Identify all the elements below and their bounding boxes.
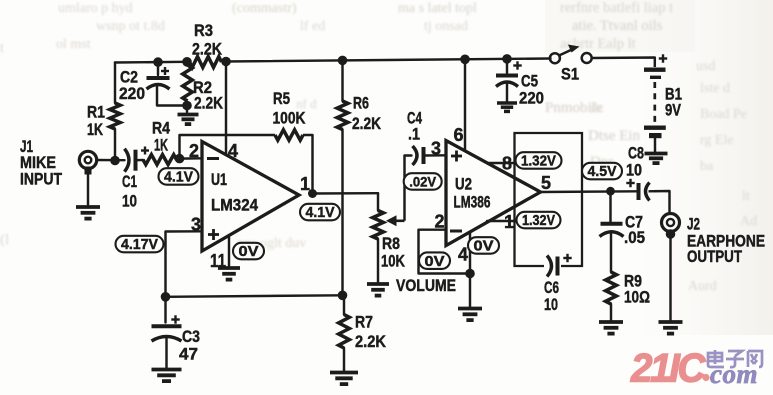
node voltage 4.17V at pin3 [116, 236, 164, 253]
svg-text:6: 6 [454, 125, 464, 145]
svg-text:(l: (l [0, 232, 9, 248]
pin label 2 of U2 [435, 212, 445, 232]
svg-text:4: 4 [458, 245, 468, 265]
capacitor C4 [405, 110, 447, 166]
svg-text:4.1V: 4.1V [306, 205, 335, 221]
svg-text:2.2K: 2.2K [192, 41, 222, 59]
wire C8 to J2 [649, 191, 670, 213]
svg-text:Ad: Ad [740, 214, 757, 229]
svg-text:R3: R3 [194, 22, 213, 40]
pin label 3 of U2 [431, 139, 441, 159]
node voltage 1.32V at pin8 [516, 152, 562, 170]
svg-text:lste d: lste d [700, 81, 730, 96]
svg-text:.02V: .02V [409, 175, 436, 190]
svg-text:4: 4 [228, 141, 238, 161]
pin label 1 of U2 [504, 212, 514, 232]
svg-text:(commastr): (commastr) [232, 1, 297, 16]
svg-text:C5: C5 [521, 73, 538, 91]
ground below pin4 U2 [458, 309, 482, 321]
svg-text:.05: .05 [624, 229, 645, 247]
ground below R7 [330, 373, 358, 385]
node voltage 4.1V at pin2 [159, 168, 199, 186]
capacitor C7 [600, 191, 646, 272]
resistor R2 [183, 65, 223, 113]
ground below C5 [497, 103, 517, 111]
svg-text:.1: .1 [408, 126, 420, 144]
svg-text:Dtse Ein: Dtse Ein [588, 128, 641, 144]
svg-text:umlaro p hyd: umlaro p hyd [58, 1, 133, 16]
svg-text:U1: U1 [211, 171, 227, 189]
node junction R6/R7 [338, 291, 348, 301]
resistor R1 [87, 63, 120, 161]
op-amp U2 [446, 141, 541, 246]
node voltage 4.1V at U1 output [300, 204, 340, 221]
node junction R1 bottom input [110, 156, 120, 166]
wire pin6 to rail [464, 59, 466, 150]
svg-text:0V: 0V [239, 244, 259, 260]
svg-text:1K: 1K [154, 137, 168, 155]
ground below R8 [367, 284, 389, 296]
wire pin3 [166, 231, 203, 297]
wire gain box pins 1-8 [515, 133, 583, 266]
svg-text:0V: 0V [474, 239, 494, 255]
node junction pin2 [175, 154, 185, 164]
svg-text:10: 10 [626, 162, 642, 180]
ground below R2 [178, 106, 199, 125]
capacitor C3 [152, 297, 201, 368]
switch S1 [550, 45, 592, 84]
capacitor C8 [626, 145, 650, 201]
node junction R6 top [338, 56, 348, 66]
svg-text:ma s latel topl: ma s latel topl [398, 1, 477, 16]
wire pin1 stub [487, 220, 516, 222]
pin label 3 [191, 215, 201, 235]
svg-text:9V: 9V [665, 102, 681, 120]
capacitor C6 [544, 254, 572, 314]
svg-text:Boad Pe: Boad Pe [700, 107, 747, 122]
capacitor C5 [496, 59, 544, 108]
svg-text:INPUT: INPUT [20, 171, 62, 189]
node junction C2 tap [153, 57, 163, 67]
svg-text:VOLUME: VOLUME [396, 277, 456, 295]
node voltage 0V at pin11 [233, 243, 264, 260]
svg-text:R6: R6 [353, 95, 369, 113]
pin label 5 [541, 173, 551, 193]
svg-text:2.2K: 2.2K [352, 115, 381, 133]
wire bottom bias rail [166, 295, 343, 297]
watermark 21IC logo [630, 347, 706, 391]
pin label 6 [454, 125, 464, 145]
svg-text:C6: C6 [544, 279, 559, 297]
node voltage .02V at pin3 U2 [404, 173, 442, 190]
node junction pin6 rail [460, 55, 470, 65]
svg-text:47: 47 [179, 346, 198, 364]
svg-text:2: 2 [189, 141, 199, 161]
resistor R3 [190, 22, 223, 67]
wiper arrow R8 [386, 156, 405, 227]
node junction C3 top [161, 292, 171, 302]
ground below pin11 [218, 268, 240, 280]
svg-text:4.17V: 4.17V [121, 237, 158, 253]
svg-text:0V: 0V [425, 254, 445, 270]
pin label 11 [210, 251, 226, 271]
battery B1 [644, 54, 682, 153]
svg-text:10Ω: 10Ω [624, 289, 650, 307]
svg-text:LM324: LM324 [211, 197, 259, 215]
ground below C3 [152, 370, 182, 382]
svg-text:5: 5 [541, 173, 551, 193]
ground below J2 [659, 322, 683, 334]
svg-text:1.32V: 1.32V [521, 154, 556, 170]
node junction pin4 rail [221, 57, 231, 67]
wire feedback loop [180, 135, 313, 194]
svg-text:lf ed: lf ed [300, 19, 325, 34]
svg-text:C2: C2 [120, 69, 138, 87]
svg-text:ol mst: ol mst [56, 37, 91, 52]
wire S1 to battery [591, 58, 655, 68]
svg-text:R4: R4 [152, 120, 171, 138]
capacitor C1 [122, 147, 149, 211]
node junction C5 tap [502, 54, 512, 64]
connector J2 earphone output [662, 214, 766, 267]
watermark chinese glyphs [708, 350, 762, 367]
svg-text:220: 220 [519, 90, 544, 108]
svg-text:U2: U2 [455, 176, 472, 194]
wire J2 to ground [669, 238, 671, 321]
svg-text:4.1V: 4.1V [164, 170, 193, 186]
svg-text:220: 220 [119, 85, 145, 103]
resistor R7 [339, 295, 386, 371]
svg-text:R8: R8 [382, 235, 400, 253]
pin label 2 [189, 141, 199, 161]
capacitor C2 [119, 62, 187, 105]
wire top supply rail left segment (4.5V node) [115, 61, 186, 64]
wire J1 to ground [87, 171, 89, 205]
wire J1 to C1 [97, 159, 125, 162]
potentiometer R8 [373, 193, 456, 295]
svg-text:R7: R7 [355, 314, 373, 332]
svg-text:1: 1 [300, 174, 310, 194]
svg-text:21IC: 21IC [630, 347, 706, 391]
svg-text:100K: 100K [273, 110, 306, 128]
pin label 1 [300, 174, 310, 194]
watermark com script [710, 359, 758, 389]
svg-text:4.5V: 4.5V [588, 164, 617, 180]
svg-text:C1: C1 [122, 173, 137, 191]
svg-text:R1: R1 [87, 104, 105, 122]
node voltage 0V at pin4 U2 [468, 237, 499, 255]
svg-text:10K: 10K [381, 253, 405, 271]
svg-text:10: 10 [122, 193, 137, 211]
node voltage 1.32V at pin1 [517, 212, 561, 229]
wire pin8 stub [489, 162, 516, 164]
ground below battery [645, 154, 668, 164]
wire pin4 U2 to ground [469, 232, 471, 307]
svg-text:rg Ele: rg Ele [700, 133, 734, 148]
svg-text:3: 3 [431, 139, 441, 159]
wire pin4 to rail [225, 62, 227, 155]
node junction R2 bottom [182, 101, 192, 111]
svg-text:10: 10 [544, 296, 558, 314]
op-amp U1 [202, 142, 299, 252]
resistor R6 [337, 60, 381, 295]
svg-text:J2: J2 [687, 216, 700, 234]
ground below R9 [599, 322, 623, 334]
svg-text:1.32V: 1.32V [522, 213, 555, 229]
node voltage 0V on pin2 loop [419, 252, 450, 269]
svg-text:LM386: LM386 [454, 194, 491, 212]
connector J1 mike input [20, 138, 97, 189]
wire top supply rail middle segment (9V) [224, 59, 551, 62]
pin label 4 of U2 [458, 245, 468, 265]
svg-text:wsnp ot t.8d: wsnp ot t.8d [96, 19, 165, 34]
wire U1 output to R8 [313, 192, 379, 195]
svg-text:ba: ba [700, 159, 714, 174]
svg-text:ilc: ilc [590, 101, 604, 116]
svg-text:1K: 1K [87, 121, 103, 139]
svg-text:rerfnre batlefi liap t: rerfnre batlefi liap t [560, 0, 673, 16]
resistor R5 [273, 90, 306, 140]
svg-text:R5: R5 [273, 90, 290, 108]
resistor R4 [143, 120, 180, 165]
watermark dot [702, 374, 709, 381]
ground below J1 [76, 207, 100, 219]
pin label 4 [228, 141, 238, 161]
wire pin11 to ground [228, 235, 230, 266]
svg-text:tj onsad: tj onsad [424, 19, 468, 34]
wire U2 output [541, 190, 637, 193]
svg-text:C3: C3 [182, 328, 200, 346]
svg-text:t: t [0, 41, 4, 56]
svg-text:atie. Ttvanl oils: atie. Ttvanl oils [572, 18, 663, 34]
svg-text:Aurd: Aurd [688, 279, 717, 294]
wire pin2 loop U2 [419, 230, 471, 274]
svg-text:2.2K: 2.2K [194, 95, 223, 113]
node voltage 4.5V [582, 163, 622, 180]
pin label 8 [502, 154, 512, 174]
node junction C7 top [606, 187, 615, 196]
resistor R9 [606, 272, 650, 321]
svg-text:OUTPUT: OUTPUT [687, 248, 742, 266]
node junction pin4 loop [465, 269, 475, 279]
svg-text:lt: lt [742, 189, 750, 204]
svg-text:2.2K: 2.2K [355, 333, 386, 351]
svg-text:usd: usd [696, 59, 715, 74]
node junction U1 output [308, 189, 317, 198]
svg-text:MIKE: MIKE [20, 154, 56, 172]
wire pin2 to U1 [180, 157, 203, 160]
svg-text:S1: S1 [561, 66, 579, 84]
node junction R3 left / R2 top [182, 57, 192, 67]
svg-text:C8: C8 [628, 145, 644, 163]
